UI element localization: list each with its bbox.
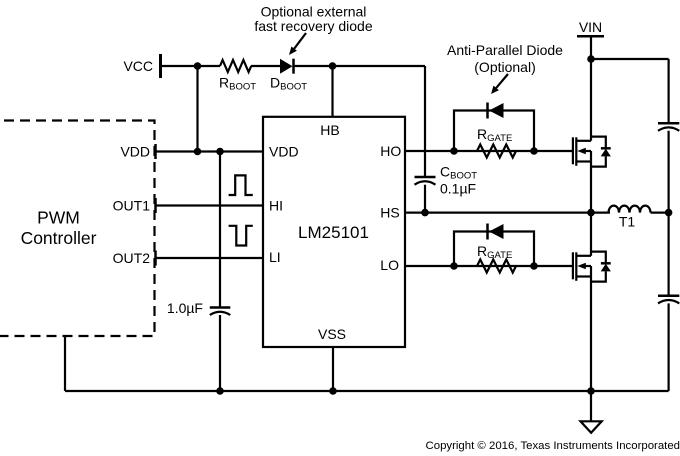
svg-text:Controller: Controller <box>21 228 97 248</box>
svg-text:HI: HI <box>269 198 283 214</box>
wire VIN to right rail <box>591 58 669 60</box>
wire cap to ground rail <box>219 315 221 391</box>
svg-text:HO: HO <box>380 143 401 159</box>
wire VIN down to Q1 drain <box>590 36 592 141</box>
junction T1 / right rail <box>665 209 673 217</box>
svg-text:VDD: VDD <box>269 144 299 160</box>
wire bottom ground rail <box>65 390 669 392</box>
svg-text:LO: LO <box>380 257 399 273</box>
svg-text:VCC: VCC <box>123 58 153 74</box>
svg-text:(Optional): (Optional) <box>474 59 535 75</box>
wire right rail lower <box>667 303 669 391</box>
terminal VCC tick <box>159 54 162 78</box>
wire anti-parallel loop lower <box>454 232 534 267</box>
junction VCC/VDD drop <box>194 62 202 70</box>
junction HB <box>329 62 337 70</box>
diode anti-parallel upper <box>488 103 504 119</box>
svg-text:1.0µF: 1.0µF <box>167 300 203 316</box>
diode DBOOT <box>280 59 294 74</box>
capacitor output bottom <box>658 296 679 304</box>
junction VSS / rail <box>329 387 337 395</box>
transistor Q2 low-side MOSFET <box>573 252 591 280</box>
wire right rail middle <box>667 131 669 296</box>
resistor RBOOT <box>220 60 251 72</box>
wire anti-parallel loop upper <box>454 111 534 152</box>
svg-text:OUT2: OUT2 <box>113 250 151 266</box>
wire HB pin <box>331 66 333 117</box>
svg-text:LI: LI <box>269 249 281 265</box>
junction VIN <box>587 55 595 63</box>
arrow to anti-parallel diode <box>491 74 508 94</box>
wire OUT2 to LI <box>156 257 264 259</box>
junction HS / half-bridge <box>587 209 595 217</box>
svg-text:VIN: VIN <box>579 19 602 35</box>
junction VDD left <box>194 148 202 156</box>
waveform negative pulse <box>229 226 253 246</box>
wire Q2 drain to HS <box>590 213 592 256</box>
junction decoupling cap / rail <box>216 387 224 395</box>
diode Q2 body <box>591 252 611 282</box>
resistor RGATE lower <box>477 260 516 273</box>
wire RBOOT to DBOOT <box>251 65 280 67</box>
wire PWM OUT2 tick <box>154 251 157 266</box>
wire T1 to right rail <box>651 212 669 214</box>
terminal VIN bar <box>577 35 604 38</box>
svg-text:T1: T1 <box>619 214 636 230</box>
svg-text:PWM: PWM <box>37 208 80 228</box>
svg-text:fast recovery diode: fast recovery diode <box>254 18 372 34</box>
capacitor input top <box>658 123 679 131</box>
junction ground rail / Q2 <box>587 387 595 395</box>
wire OUT1 to HI <box>156 204 264 206</box>
wire bootstrap down to CBOOT <box>424 66 426 177</box>
junction LO right <box>530 262 538 270</box>
wire DBOOT to HB corner <box>294 65 426 67</box>
capacitor CBOOT <box>415 177 436 185</box>
capacitor 1.0uF <box>210 308 231 316</box>
wire VDD <box>156 150 264 152</box>
wire LO <box>405 265 572 267</box>
ground symbol <box>581 391 602 433</box>
svg-text:HS: HS <box>380 205 399 221</box>
wire PWM OUT1 tick <box>154 198 157 213</box>
wire VCC drop <box>196 66 198 152</box>
wire VSS pin <box>332 347 334 391</box>
svg-text:VDD: VDD <box>120 144 150 160</box>
resistor RGATE upper <box>477 145 516 158</box>
svg-text:0.1µF: 0.1µF <box>440 181 476 197</box>
svg-text:HB: HB <box>320 122 339 138</box>
wire Q1 source to HS <box>590 162 592 213</box>
transistor Q1 high-side MOSFET <box>573 137 591 166</box>
wire HS <box>405 212 610 214</box>
svg-text:OUT1: OUT1 <box>113 198 151 214</box>
wire VCC to RBOOT <box>161 65 221 67</box>
wire CBOOT to HS <box>424 185 426 213</box>
junction HO left <box>450 147 458 155</box>
junction HS / CBOOT <box>421 209 429 217</box>
label PWM Controller <box>21 208 97 249</box>
diode anti-parallel lower <box>488 224 504 240</box>
junction LO left <box>450 262 458 270</box>
wire PWM ground drop <box>64 336 66 391</box>
wire VDD down to decoupling cap <box>219 152 221 308</box>
op-amp U1 LM25101 IC body <box>263 117 405 347</box>
diode Q1 body <box>591 137 611 167</box>
wire HO <box>405 150 572 152</box>
arrow to DBOOT <box>289 33 306 55</box>
annotation anti-parallel diode optional <box>447 42 563 75</box>
PWM controller dashed box <box>0 121 155 337</box>
wire PWM VDD tick <box>154 144 157 159</box>
svg-text:LM25101: LM25101 <box>298 223 369 242</box>
junction VDD right <box>216 148 224 156</box>
svg-text:Copyright © 2016, Texas Instru: Copyright © 2016, Texas Instruments Inco… <box>426 440 680 452</box>
wire right rail upper <box>667 59 669 123</box>
waveform positive pulse <box>229 175 253 195</box>
inductor T1 <box>609 206 651 213</box>
wire Q2 source to ground rail <box>590 277 592 392</box>
junction HO right <box>530 147 538 155</box>
svg-text:VSS: VSS <box>318 326 346 342</box>
svg-text:Anti-Parallel Diode: Anti-Parallel Diode <box>447 42 563 58</box>
annotation optional external fast recovery diode <box>254 4 372 35</box>
